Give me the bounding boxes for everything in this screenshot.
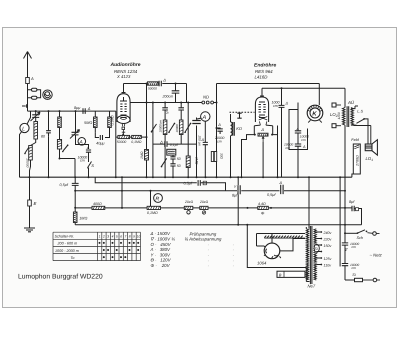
fuse Si in NT [314,244,319,252]
svg-text:X 4123: X 4123 [116,74,131,79]
svg-text:1200: 1200 [337,112,341,119]
svg-text:Δ: Δ [285,102,289,106]
node: grid wire bus y=110.6 [28,110,116,112]
svg-text:10000: 10000 [175,124,179,133]
svg-text:200cm: 200cm [162,94,174,98]
svg-text:50000: 50000 [117,140,127,144]
bias wire y182.3 with 0,5uF [95,177,225,191]
svg-text:·: · [208,247,209,252]
capacitor 80pF in x48 [46,131,51,137]
svg-text:·: · [233,258,234,263]
svg-text:9: 9 [133,234,135,238]
grid feed wire y87.7 [262,87,345,89]
NT bottom connection [306,268,309,282]
wire antenna to plugs [28,84,32,90]
svg-text:50: 50 [177,164,181,168]
capacitor 10000cm second [295,144,301,146]
B+ vertical x344.5 [344,125,346,280]
wire L2 to bus [30,160,31,177]
svg-text:110v: 110v [324,263,332,267]
svg-text:·: · [208,258,209,263]
ground symbol [24,228,35,232]
capacitor 1000cm [281,88,283,177]
wire x152.4 with switch [152,103,154,178]
tube U2 base neck [259,117,268,126]
svg-text:Si: Si [314,247,318,251]
svg-text:200 - 600 m: 200 - 600 m [57,242,78,246]
svg-text:6: 6 [120,234,122,238]
switch S below cap [88,152,90,177]
svg-text:~ Netz: ~ Netz [370,252,383,257]
svg-text:L416D: L416D [255,75,269,80]
svg-text:2700Ω: 2700Ω [356,155,360,167]
wire x241 socket left [242,135,255,178]
svg-text:0,5μf: 0,5μf [184,182,193,186]
band switch column wire x146 [146,84,148,150]
resistor in antenna branch x59 top [59,111,61,117]
anode feed corner into K [318,84,320,106]
svg-text:220v: 220v [323,238,332,242]
svg-text:8: 8 [129,234,131,238]
svg-text:Y: Y [234,185,237,189]
svg-text:Prüfspannung: Prüfspannung [190,231,217,236]
svg-text:L: L [22,127,25,133]
rectifier tube 1064 [264,243,280,259]
capacitor 10000cm right column [297,103,299,178]
coupling coil spiral [43,90,52,99]
wire to cap 10000cm [76,138,89,149]
plug P2 [32,96,37,99]
svg-text:S: S [91,163,94,168]
mains switch Sch [345,232,357,234]
trimmer capacitor with arrow [72,132,79,135]
switch left of caps [162,158,167,166]
svg-text:30Ω: 30Ω [219,153,223,160]
svg-text:Schalter-Nr.: Schalter-Nr. [55,235,74,239]
svg-text:5: 5 [116,234,118,238]
svg-text:10000cm: 10000cm [159,120,163,133]
long vertical x216 from anode row [216,84,218,178]
svg-text:1: 1 [99,234,101,238]
tube U2 grid top wire [260,88,264,96]
anode supply wire y83 right section [217,83,320,85]
line filter cap 10000cm upper [342,243,348,245]
wire x277 socket right to bus [273,126,278,178]
wire L to grid bus [27,111,31,124]
AUe core [347,106,349,127]
speaker cone [372,140,377,155]
NT taps [316,232,321,265]
svg-text:·: · [233,242,234,247]
svg-text:ND: ND [203,95,209,100]
resistor 0,1MOhm grid leak [109,111,111,117]
coupling capacitor x196 [196,118,198,178]
interstage coil KO [230,114,232,122]
svg-text:Δ: Δ [159,139,163,144]
tube U1 envelope [117,94,130,122]
svg-text:1064: 1064 [257,260,267,265]
tuning coil L1 [35,111,37,121]
svg-text:1MΩ: 1MΩ [140,151,144,159]
switch S2 [63,146,68,152]
earth terminal E [29,177,31,200]
svg-text:Ɵ · 120V: Ɵ · 120V [151,258,172,263]
svg-text:Φ · 20V: Φ · 20V [151,263,171,268]
svg-text:2: 2 [102,234,105,238]
svg-text:·: · [233,263,234,268]
antenna series capacitor [26,78,30,84]
filament hum resistor frame [254,125,272,135]
svg-text:·: · [233,253,234,258]
svg-text:L.S: L.S [357,109,363,113]
svg-text:Sch: Sch [357,236,364,240]
gang circle A2 [201,112,210,121]
wire x59 to junction and across [60,149,76,159]
variable tuning capacitor with arrow [32,115,39,118]
svg-text:cm: cm [352,245,357,249]
switch table grid [53,232,141,260]
svg-text:¾ Arbeitsspannung: ¾ Arbeitsspannung [185,237,222,242]
svg-text:A: A [30,76,34,81]
center tap arrow [262,137,264,142]
svg-text:Δ: Δ [201,138,205,142]
field coil to bus [352,174,354,177]
switch on x152.4 [152,124,157,132]
svg-text:cm: cm [352,266,357,270]
block capacitor 20000cm [167,149,176,155]
svg-text:Δ: Δ [279,181,283,185]
svg-text:20000: 20000 [25,158,29,168]
NT core [310,226,312,284]
svg-text:1: 1 [371,158,373,162]
svg-text:4: 4 [112,234,114,238]
stub capacitor mark [22,104,27,108]
svg-text:·: · [208,253,209,258]
tube U1 top cap wire to anode row [122,84,126,93]
svg-text:40μμ: 40μμ [96,142,105,146]
potentiometer R circle [154,194,163,203]
svg-text:AÜ: AÜ [347,100,355,105]
rectifier inner wires [272,234,305,251]
svg-text:Δ: Δ [217,123,221,127]
series caps 50 [172,155,174,177]
resistor 1MOhm x146 [145,150,149,161]
core adjust symbol [237,113,241,118]
band column 1 x164.6 [164,103,166,178]
svg-text:10: 10 [137,234,141,238]
svg-text:0,1MΩ: 0,1MΩ [131,140,142,144]
cathode wire down to bias resistors [122,123,125,126]
svg-text:∇ · 1000V ¾: ∇ · 1000V ¾ [151,237,176,242]
svg-text:240v: 240v [323,231,332,235]
8uF vertical link [237,177,239,225]
tube U2 internals [259,105,266,113]
svg-text:cm: cm [301,138,306,142]
AUe secondary winding [351,108,354,126]
svg-text:cm: cm [80,159,85,163]
svg-text:7: 7 [125,234,127,238]
svg-text:Δ: Δ [296,127,300,131]
svg-text:20000: 20000 [166,151,175,154]
svg-text:50000: 50000 [148,86,157,90]
svg-text:·: · [208,263,209,268]
svg-text:20κΩ: 20κΩ [184,200,193,204]
svg-text:0,5μf: 0,5μf [267,193,276,197]
svg-text:Δ: Δ [86,145,90,150]
svg-text:Δ: Δ [162,78,166,83]
svg-text:A: A [302,145,306,149]
svg-text:E: E [34,201,37,206]
svg-text:Δ: Δ [260,127,264,132]
svg-text:Audionröhre: Audionröhre [110,62,141,68]
wire x187.7 through 1MOhm [187,103,189,178]
svg-text:Δ · 1500V: Δ · 1500V [150,231,171,236]
wire y143.6 with 0,1uF [153,143,197,145]
wire plug2 down [28,90,32,111]
svg-text:20κΩ: 20κΩ [199,200,208,204]
svg-text:RES 964: RES 964 [255,69,273,74]
svg-text:Ο · 450V: Ο · 450V [151,242,172,247]
decoupling cap 0,5uF on x74.5 [74,177,76,208]
switch column1 [169,124,174,132]
switch S1 across LW coil [25,147,29,153]
svg-text:400Ω: 400Ω [93,202,102,206]
speaker driver [365,144,372,151]
wire x186 down [186,84,188,103]
svg-text:0,5μf: 0,5μf [60,183,69,187]
coil 20000cm lower x59 [57,140,61,150]
svg-text:0,1MΩ: 0,1MΩ [147,211,158,215]
capacitor 40pF [95,128,109,138]
hum resistor [258,133,268,136]
bias resistor pair horizontal [116,136,118,138]
capacitor 0,5uF delta [281,185,283,194]
svg-text:8μμ: 8μμ [74,106,81,110]
dashed gang line [230,111,255,113]
svg-text:To: To [71,256,75,260]
NT right winding [314,229,316,280]
resistor 0,1MOhm pot [147,206,160,209]
wire grid-leak down left of tube [115,111,117,177]
svg-text:150v: 150v [324,244,332,248]
gang indicator circle A [78,138,86,146]
svg-text:3: 3 [107,234,109,238]
K wiring loop [289,110,308,150]
svg-text:1MΩ: 1MΩ [79,216,87,220]
capacitor 200cm hanging [175,84,177,103]
capacitor Y 8uF electrolytic [238,185,240,194]
wire L down to chassis bus [20,132,22,177]
svg-text:Feld: Feld [351,138,359,142]
main chassis bus [20,176,352,178]
vertical drops to resistor row [122,177,151,208]
svg-text:cm: cm [217,139,222,143]
svg-text:·: · [233,247,234,252]
svg-text:Δ: Δ [87,106,91,111]
heater ballast B [277,271,305,277]
line filter cap 10000cm lower [342,264,348,266]
svg-text:A: A [202,115,207,121]
antenna A [24,52,32,78]
svg-text:Lumophon Burggraf WD220: Lumophon Burggraf WD220 [18,273,103,280]
svg-text:·: · [208,242,209,247]
svg-text:0,1μf: 0,1μf [170,143,179,147]
wire coil to LW coil [31,139,36,146]
plug P1 [32,88,37,91]
band column 2 x180.7 [180,103,182,145]
svg-text:R: R [155,197,159,203]
svg-text:K: K [312,111,317,118]
tube U2 envelope [255,97,268,122]
field coil 2700 Ohm [353,144,360,174]
return wire y224.3 [75,224,361,226]
screen wire y190.3 [75,190,345,192]
svg-text:0,1MΩ: 0,1MΩ [110,115,114,126]
svg-text:cm: cm [273,104,278,108]
resistor 30 Ohm twin [211,152,213,162]
svg-text:50: 50 [177,157,181,161]
svg-text:5MΩ: 5MΩ [84,121,92,125]
power loop left [247,225,306,268]
svg-text:80: 80 [41,135,45,139]
svg-text:Endröhre: Endröhre [254,63,276,69]
coupling bracket [37,90,41,98]
voltage divider wire y207.4 [75,207,345,209]
svg-text:B: B [279,272,282,277]
wire: vertical x48 [48,111,50,177]
svg-text:KO: KO [236,126,242,131]
svg-text:Y · 300V: Y · 300V [151,252,172,257]
terminal squares to AUe [332,103,336,107]
inner supply wire [257,234,306,247]
anode resistor [148,82,159,85]
driver pot magnet K [307,105,323,121]
loop antenna L [20,123,29,132]
mains feed vertical [339,177,341,266]
svg-text:Λ · 380V: Λ · 380V [150,247,172,252]
svg-text:Ne7: Ne7 [308,284,316,289]
svg-text:1000 - 2000 m: 1000 - 2000 m [55,249,79,253]
svg-text:125v: 125v [324,257,332,261]
transformer NT left winding [306,229,308,280]
long-wave coil L2 [29,146,33,161]
socket to bus [262,142,264,177]
capacitor below A2 [203,142,208,144]
svg-text:4,4Ω: 4,4Ω [258,202,266,206]
switch column2 [185,124,190,132]
tube U1 internals [120,97,127,101]
hatched winding band [264,236,302,238]
legend symbols [150,231,176,268]
anode row wire y83 [124,83,187,85]
speaker selector switch [357,119,364,123]
grid wire y102 [130,102,201,104]
svg-text:Si: Si [352,273,356,277]
wire [59,128,61,140]
anode capacitor [159,81,161,87]
resistor 1MOhm to ground [74,208,76,225]
